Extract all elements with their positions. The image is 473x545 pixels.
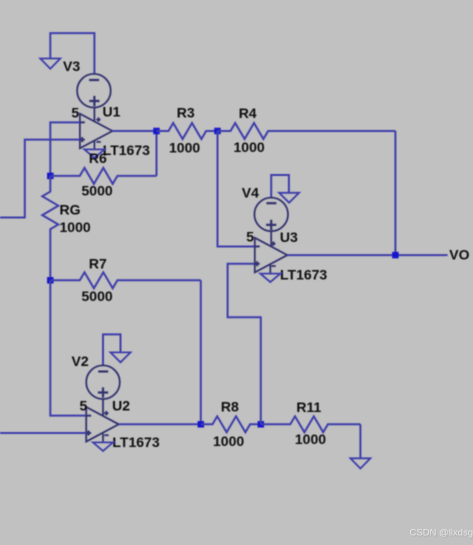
svg-text:R7: R7 bbox=[89, 255, 107, 271]
wire V2 ground branch bbox=[103, 334, 121, 365]
wire R6 right to U1 output junction bbox=[156, 131, 158, 176]
wire R7 right down to U2 output bbox=[200, 280, 202, 424]
label R4 bbox=[239, 105, 257, 121]
label U1 bbox=[103, 104, 121, 120]
U2 value LT1673 bbox=[112, 434, 159, 450]
node VO label bbox=[449, 247, 469, 263]
wire U2 non-inverting input to left edge port bbox=[0, 432, 86, 434]
ground (V2) bbox=[111, 352, 131, 362]
op-amp U2 bbox=[86, 407, 119, 442]
wire junction to U3 inverting input bbox=[218, 131, 255, 246]
svg-text:5000: 5000 bbox=[82, 288, 113, 304]
resistor R3 bbox=[157, 123, 218, 139]
R7 value 5000 bbox=[82, 288, 113, 304]
label R8 bbox=[221, 398, 239, 414]
junction U2 output / R7 / R8 bbox=[198, 421, 205, 428]
RG value 1000 bbox=[60, 219, 91, 235]
svg-text:1000: 1000 bbox=[169, 139, 200, 155]
svg-text:1000: 1000 bbox=[234, 139, 265, 155]
op-amp U1 bbox=[80, 114, 113, 149]
resistor R7 bbox=[50, 272, 201, 288]
svg-text:R11: R11 bbox=[296, 399, 321, 415]
label R3 bbox=[177, 105, 195, 121]
op-amp U3 bbox=[255, 238, 288, 273]
wire V2 to U2 V+ pin bbox=[102, 399, 104, 415]
svg-text:LT1673: LT1673 bbox=[103, 142, 150, 158]
svg-text:U1: U1 bbox=[103, 104, 121, 120]
svg-text:R8: R8 bbox=[221, 398, 239, 414]
svg-text:R4: R4 bbox=[239, 105, 257, 121]
R8 value 1000 bbox=[213, 433, 244, 449]
voltage source V3 bbox=[77, 74, 111, 108]
R4 value 1000 bbox=[234, 139, 265, 155]
label V4 bbox=[242, 185, 259, 201]
svg-text:U2: U2 bbox=[112, 398, 130, 414]
wire V3 ground branch (top-left L) bbox=[50, 33, 94, 74]
svg-text:LT1673: LT1673 bbox=[280, 266, 327, 282]
junction output node VO bbox=[392, 252, 399, 259]
svg-text:CSDN @lixdsg: CSDN @lixdsg bbox=[410, 528, 473, 539]
svg-text:1000: 1000 bbox=[213, 433, 244, 449]
svg-text:V3: V3 bbox=[63, 58, 80, 74]
wire V4 ground branch bbox=[271, 175, 289, 198]
svg-text:5: 5 bbox=[80, 398, 88, 414]
node A junction (R6/RG/U1-) bbox=[47, 173, 54, 180]
voltage source V4 bbox=[254, 198, 288, 232]
wire U1 inverting input to node A bbox=[50, 122, 80, 176]
svg-text:V4: V4 bbox=[242, 185, 259, 201]
U2 pin 5 label bbox=[80, 398, 88, 414]
svg-text:U3: U3 bbox=[280, 229, 298, 245]
wire U1 non-inverting input to left edge port bbox=[0, 140, 80, 218]
R3 value 1000 bbox=[169, 139, 200, 155]
ground (U1 V-) bbox=[84, 149, 104, 158]
svg-text:5: 5 bbox=[71, 104, 79, 120]
U3 pin 5 label bbox=[246, 228, 254, 244]
label R6 bbox=[89, 150, 107, 166]
label U2 bbox=[112, 398, 130, 414]
wire U3 output to VO bbox=[287, 254, 447, 256]
R6 value 5000 bbox=[82, 183, 113, 199]
ground (U2 V-) bbox=[93, 442, 113, 451]
ground (R11) bbox=[350, 458, 370, 468]
svg-text:RG: RG bbox=[60, 202, 81, 218]
svg-text:1000: 1000 bbox=[295, 431, 326, 447]
svg-text:5000: 5000 bbox=[82, 183, 113, 199]
node B junction (RG/R7/U2-) bbox=[47, 277, 54, 284]
U1 value LT1673 bbox=[103, 142, 150, 158]
svg-text:VO: VO bbox=[449, 247, 469, 263]
label U3 bbox=[280, 229, 298, 245]
label V2 bbox=[72, 353, 89, 369]
resistor RG (vertical) bbox=[42, 176, 58, 280]
U3 value LT1673 bbox=[280, 266, 327, 282]
wire V3 to U1 V+ pin bbox=[93, 108, 95, 122]
svg-text:R3: R3 bbox=[177, 105, 195, 121]
wire U2 output bbox=[119, 423, 201, 425]
wire U1 V- pin to ground bbox=[93, 141, 95, 150]
U1 pin 5 label bbox=[71, 104, 79, 120]
ground (V4) bbox=[279, 193, 299, 203]
junction R8/R11/U3+ bbox=[258, 421, 265, 428]
svg-text:LT1673: LT1673 bbox=[112, 434, 159, 450]
wire R4 right down to output node bbox=[394, 131, 396, 255]
label R7 bbox=[89, 255, 107, 271]
junction R3/R4/U3- node bbox=[214, 128, 221, 135]
label RG bbox=[60, 202, 81, 218]
wire U3 V- pin to ground bbox=[269, 265, 271, 274]
watermark CSDN @lixdsg bbox=[410, 528, 473, 539]
wire R11 right to ground bbox=[359, 424, 361, 458]
wire U2 V- pin to ground bbox=[102, 434, 104, 443]
voltage source V2 bbox=[86, 365, 120, 399]
ground (V3) bbox=[40, 59, 60, 69]
resistor R6 bbox=[50, 168, 156, 184]
wire node B down to U2 inverting input bbox=[50, 280, 86, 415]
svg-text:R6: R6 bbox=[89, 150, 107, 166]
R11 value 1000 bbox=[295, 431, 326, 447]
label R11 bbox=[296, 399, 321, 415]
ground (U3 V-) bbox=[260, 274, 280, 283]
resistor R8 bbox=[201, 416, 261, 432]
wire U1 output bbox=[112, 130, 156, 132]
wire V4 to U3 V+ pin bbox=[270, 231, 272, 246]
svg-text:V2: V2 bbox=[72, 353, 89, 369]
resistor R4 bbox=[218, 123, 396, 139]
junction U1 output node bbox=[153, 128, 160, 135]
label V3 bbox=[63, 58, 80, 74]
resistor R11 bbox=[261, 416, 361, 432]
svg-text:5: 5 bbox=[246, 228, 254, 244]
wire U3 non-inverting input path bbox=[228, 264, 261, 425]
svg-text:1000: 1000 bbox=[60, 219, 91, 235]
